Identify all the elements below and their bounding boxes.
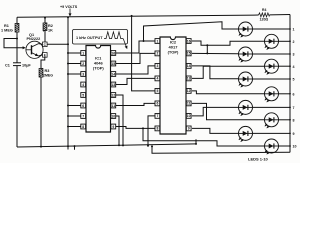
- wire IC2 pin11 to LED7: [192, 107, 238, 116]
- svg-text:C1: C1: [5, 64, 10, 68]
- op-amp U2: IC2 4017 DIP package: [160, 37, 186, 134]
- wire IC1 pin10 to ground bus: [116, 116, 120, 146]
- wire IC2 pin13 to LED5: [192, 66, 238, 79]
- svg-text:2: 2: [156, 52, 158, 56]
- resistor R2: [43, 17, 53, 33]
- 1 kHz output callout box: [73, 30, 129, 50]
- svg-text:4: 4: [82, 83, 84, 87]
- svg-text:9: 9: [188, 127, 190, 131]
- IC2 pin 7: [155, 114, 160, 119]
- IC2 pin 8: [155, 126, 160, 131]
- LED1: [238, 22, 253, 38]
- svg-text:R2: R2: [48, 24, 53, 28]
- svg-text:Q1: Q1: [29, 33, 34, 37]
- wire IC2 pin14 to LED4: [192, 66, 264, 78]
- svg-text:10: 10: [111, 114, 115, 118]
- wire R1 to base node: [16, 32, 18, 40]
- IC1 pin 1: [81, 51, 86, 56]
- IC2 pin 14: [186, 64, 191, 69]
- wire rail stub to IC1 pin row y=53: [67, 52, 81, 54]
- wire LED7 to right bus: [253, 106, 295, 110]
- wire rail stub to IC1 pin row y=105.5: [67, 105, 81, 107]
- wire LED6 to right bus: [279, 92, 295, 96]
- svg-text:6: 6: [156, 102, 158, 106]
- wire bottom ground bus: [17, 139, 196, 147]
- transistor Q1: [26, 33, 43, 59]
- svg-text:9: 9: [112, 125, 114, 129]
- LEDS 1-10 caption: [248, 157, 269, 162]
- svg-text:15: 15: [187, 52, 191, 56]
- capacitor C1: [5, 39, 31, 68]
- svg-text:7: 7: [82, 114, 84, 118]
- svg-text:2: 2: [293, 40, 295, 44]
- svg-text:3: 3: [82, 72, 84, 76]
- svg-text:+9 VOLTS: +9 VOLTS: [60, 5, 78, 9]
- IC1 pin 10: [111, 114, 116, 119]
- wire rail stub to IC1 pin row y=116: [67, 115, 81, 117]
- IC1 pin 3: [81, 72, 86, 77]
- svg-text:11: 11: [112, 104, 116, 108]
- svg-text:E: E: [44, 53, 46, 57]
- svg-text:11: 11: [187, 102, 191, 106]
- wire R3 to ground bus: [40, 77, 42, 148]
- Q1 emitter terminal: [39, 53, 48, 58]
- LED8: [264, 113, 279, 129]
- svg-text:4: 4: [293, 65, 295, 69]
- svg-text:6: 6: [82, 104, 84, 108]
- wire +9V rail2 to IC2: [131, 15, 155, 91]
- svg-text:R1: R1: [4, 24, 9, 28]
- IC1 pin 16: [111, 51, 116, 56]
- IC1 pin 9: [111, 124, 116, 129]
- IC1 pin 15: [111, 61, 116, 66]
- IC1 pin 6: [81, 103, 86, 108]
- IC2 pin 1: [155, 39, 160, 44]
- IC2 pin 5: [155, 89, 160, 94]
- svg-text:1: 1: [293, 28, 295, 32]
- svg-text:7: 7: [156, 114, 158, 118]
- wire IC2 pin12 to LED6: [192, 91, 264, 94]
- IC2 pin 13: [186, 76, 191, 81]
- IC1 pin 14: [111, 72, 116, 77]
- svg-text:13: 13: [111, 83, 115, 87]
- wire base jog: [4, 39, 26, 50]
- wire LED10 to right bus: [279, 145, 297, 149]
- wire LED4 to right bus: [279, 65, 295, 69]
- svg-text:(TOP): (TOP): [93, 66, 104, 71]
- wire IC1 pin16 to IC2 pin1: [116, 41, 155, 53]
- svg-text:1 kHz OUTPUT: 1 kHz OUTPUT: [76, 36, 103, 40]
- resistor R3: [39, 57, 53, 77]
- IC2 pin 12: [186, 89, 191, 94]
- svg-text:10: 10: [293, 145, 297, 149]
- IC1 pin 7: [81, 114, 86, 119]
- IC1 pin 13: [111, 82, 116, 87]
- wire IC2 pin15 to LED3: [192, 52, 238, 54]
- IC2 pin 3: [155, 64, 160, 69]
- svg-text:4: 4: [156, 77, 158, 81]
- resistor R4: [259, 8, 270, 21]
- ground stub on bottom bus: [74, 145, 76, 150]
- wire IC1 pin14 to IC2 pin3: [116, 66, 155, 74]
- wire IC2 pin8 to LED10 row: [142, 127, 264, 146]
- LED4: [264, 59, 279, 75]
- svg-text:PN2222: PN2222: [27, 37, 41, 41]
- wire rail stub to IC1 pin row y=126.5: [67, 126, 81, 128]
- svg-text:10: 10: [187, 114, 191, 118]
- svg-text:LEDS 1-10: LEDS 1-10: [248, 157, 269, 162]
- wire rail stub to IC1 pin row y=74: [67, 73, 81, 75]
- IC2 pin 6: [155, 101, 160, 106]
- svg-text:10µF: 10µF: [22, 64, 31, 68]
- IC2 pin 4: [155, 76, 160, 81]
- wire top +9V bus: [17, 15, 290, 18]
- IC1 pin 4: [81, 82, 86, 87]
- svg-text:16: 16: [187, 39, 191, 43]
- svg-text:3: 3: [156, 64, 158, 68]
- svg-text:5: 5: [293, 78, 295, 82]
- resistor R1: [1, 17, 19, 32]
- wire IC2 pin7 to ground bus: [147, 116, 155, 147]
- IC2 pin 10: [186, 114, 191, 119]
- svg-text:R4: R4: [262, 8, 266, 12]
- svg-text:5: 5: [156, 89, 158, 93]
- wire IC2 pin1 node over top to LED1: [143, 22, 239, 42]
- IC1 pin 2: [81, 61, 86, 66]
- LED3: [238, 47, 253, 63]
- IC2 pin 15: [186, 51, 191, 56]
- LED5: [238, 72, 253, 88]
- svg-text:12: 12: [111, 93, 115, 97]
- wire IC2 pin16 to LED2: [192, 41, 264, 54]
- svg-text:120Ω: 120Ω: [260, 18, 269, 22]
- LED7: [238, 100, 253, 116]
- wire LED1 to right bus: [253, 28, 295, 32]
- svg-text:8: 8: [156, 127, 158, 131]
- wire IC1 pin11 to IC2 pin6: [116, 103, 155, 105]
- svg-text:1 MEG: 1 MEG: [1, 29, 13, 33]
- wire R2 to collector: [44, 31, 46, 43]
- LED2: [264, 34, 279, 50]
- IC1 pin 11: [111, 103, 116, 108]
- LED9: [238, 126, 253, 142]
- svg-text:13: 13: [187, 77, 191, 81]
- wire IC1 pin15 to IC2 pin2: [116, 53, 155, 63]
- IC2 pin 16: [186, 39, 191, 44]
- wire collector to rail: [47, 43, 69, 45]
- svg-text:8: 8: [82, 125, 84, 129]
- wire LED9 to right bus: [253, 132, 295, 136]
- wire right vertical bus: [289, 15, 291, 153]
- wire IC2 pin10 to LED8: [192, 103, 264, 119]
- svg-text:16: 16: [111, 51, 115, 55]
- svg-text:1K: 1K: [48, 28, 53, 32]
- svg-text:12: 12: [187, 89, 191, 93]
- wire C1 to ground bus: [16, 66, 18, 147]
- wire IC1 pin13 to IC2 pin4: [116, 78, 155, 84]
- wire IC2 pin9 to LED9: [192, 128, 238, 145]
- op-amp U1: IC1 4046 DIP package: [86, 46, 111, 133]
- wire IC1 pin9 to IC2 pin8: [116, 127, 155, 129]
- LED10: [264, 139, 279, 155]
- svg-text:6: 6: [293, 92, 295, 96]
- wire +9V rail to IC1: [67, 16, 69, 149]
- IC1 pin 12: [111, 93, 116, 98]
- +9 VOLTS label: [60, 5, 78, 17]
- svg-text:2: 2: [82, 62, 84, 66]
- svg-text:9: 9: [293, 132, 295, 136]
- svg-text:2MEG: 2MEG: [43, 73, 53, 77]
- wire LED3 to right bus: [253, 53, 295, 57]
- svg-text:14: 14: [111, 72, 115, 76]
- svg-text:1: 1: [156, 39, 158, 43]
- svg-text:14: 14: [187, 64, 191, 68]
- wire IC1 pin12 to IC2 pin5: [116, 95, 124, 146]
- svg-text:7: 7: [293, 106, 295, 110]
- IC2 pin 9: [186, 126, 191, 131]
- IC1 pin 8: [81, 124, 86, 129]
- svg-text:15: 15: [111, 62, 115, 66]
- svg-text:(TOP): (TOP): [168, 50, 179, 55]
- Q1 collector terminal: [39, 42, 48, 47]
- IC2 pin 11: [186, 101, 191, 106]
- LED6: [264, 87, 279, 103]
- IC1 pin 5: [81, 93, 86, 98]
- wire LED8 to right bus: [279, 118, 295, 122]
- svg-text:1: 1: [82, 51, 84, 55]
- wire LED2 to right bus: [279, 40, 295, 44]
- wire lower return bus: [151, 145, 290, 153]
- svg-text:3: 3: [293, 53, 295, 57]
- svg-text:5: 5: [82, 93, 84, 97]
- svg-text:8: 8: [293, 118, 295, 122]
- wire LED5 to right bus: [253, 78, 295, 82]
- IC2 pin 2: [155, 51, 160, 56]
- wire rail stub to IC1 pin row y=63.5: [67, 63, 81, 65]
